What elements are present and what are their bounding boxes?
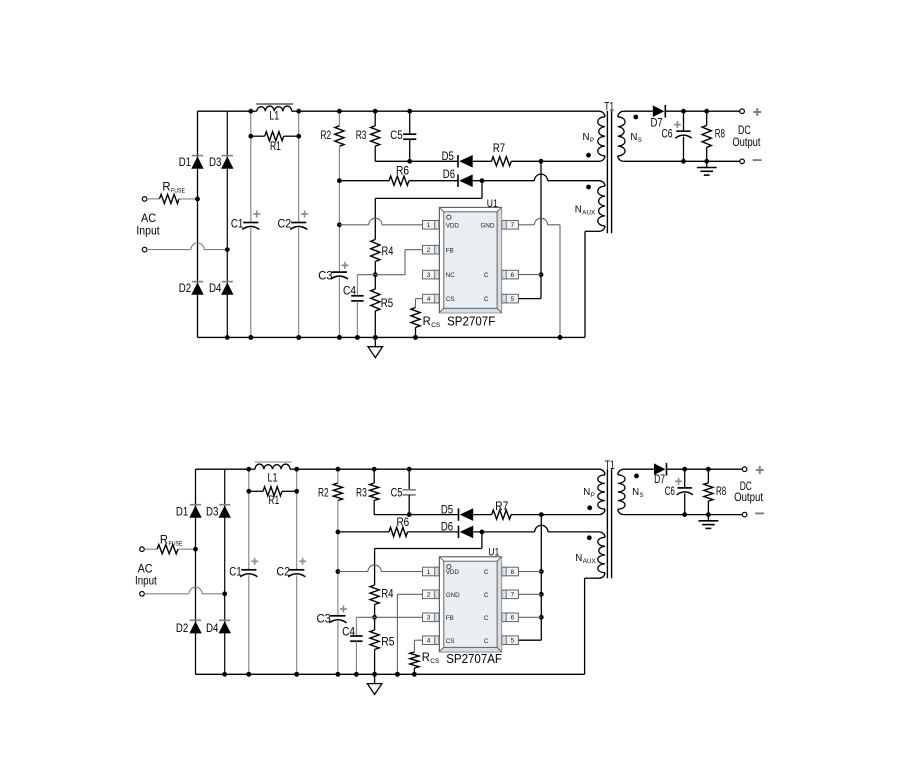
- svg-text:R4: R4: [381, 589, 394, 601]
- svg-text:R4: R4: [382, 246, 394, 258]
- svg-text:R2: R2: [318, 487, 329, 499]
- svg-text:N: N: [575, 205, 582, 216]
- svg-text:R7: R7: [495, 501, 508, 513]
- svg-text:C: C: [484, 638, 489, 645]
- svg-text:R: R: [423, 316, 431, 328]
- svg-text:L1: L1: [269, 111, 279, 123]
- svg-text:VDD: VDD: [446, 569, 460, 576]
- svg-text:GND: GND: [446, 592, 460, 599]
- svg-text:R2: R2: [321, 130, 332, 142]
- svg-text:S: S: [638, 138, 642, 144]
- svg-text:SP2707F: SP2707F: [447, 313, 495, 328]
- svg-text:VDD: VDD: [446, 222, 460, 229]
- svg-text:CS: CS: [446, 296, 455, 303]
- svg-text:Output: Output: [732, 137, 761, 149]
- svg-text:8: 8: [511, 569, 515, 576]
- svg-text:D6: D6: [441, 521, 453, 533]
- svg-text:R: R: [422, 652, 430, 664]
- svg-text:N: N: [583, 487, 590, 498]
- svg-text:2: 2: [427, 592, 431, 599]
- svg-text:CS: CS: [431, 322, 440, 329]
- svg-text:D2: D2: [179, 283, 191, 295]
- svg-text:SP2707AF: SP2707AF: [446, 651, 502, 666]
- svg-text:D6: D6: [443, 169, 455, 181]
- svg-text:D4: D4: [206, 623, 219, 635]
- svg-text:T1: T1: [604, 102, 614, 114]
- svg-text:P: P: [591, 493, 595, 499]
- svg-text:Input: Input: [135, 575, 157, 587]
- svg-text:FB: FB: [446, 615, 454, 622]
- svg-text:C: C: [484, 615, 489, 622]
- svg-text:D3: D3: [206, 507, 218, 519]
- svg-text:FUSE: FUSE: [169, 541, 183, 548]
- svg-text:7: 7: [511, 592, 515, 599]
- svg-text:NC: NC: [446, 272, 456, 279]
- svg-text:1: 1: [427, 569, 431, 576]
- svg-text:C5: C5: [390, 130, 402, 142]
- svg-text:R6: R6: [397, 517, 410, 529]
- svg-text:C: C: [484, 592, 489, 599]
- svg-text:C2: C2: [276, 566, 290, 578]
- svg-text:R7: R7: [493, 143, 505, 155]
- svg-text:D1: D1: [179, 157, 191, 169]
- svg-text:C3: C3: [318, 271, 332, 283]
- svg-text:R8: R8: [716, 486, 726, 498]
- svg-text:2: 2: [427, 247, 431, 254]
- svg-text:4: 4: [427, 296, 431, 303]
- svg-text:1: 1: [427, 222, 431, 229]
- svg-text:FUSE: FUSE: [171, 188, 185, 195]
- svg-text:D3: D3: [209, 157, 221, 169]
- svg-text:C2: C2: [278, 219, 292, 231]
- svg-text:3: 3: [427, 615, 431, 622]
- svg-text:6: 6: [511, 615, 515, 622]
- svg-text:CS: CS: [446, 638, 455, 645]
- svg-text:4: 4: [427, 638, 431, 645]
- svg-text:C6: C6: [665, 486, 675, 498]
- svg-text:D1: D1: [176, 507, 188, 519]
- svg-text:T1: T1: [605, 460, 615, 472]
- svg-text:R: R: [160, 535, 168, 547]
- svg-text:R1: R1: [268, 495, 279, 507]
- svg-text:R5: R5: [381, 637, 394, 649]
- svg-text:C: C: [484, 272, 489, 279]
- svg-text:P: P: [590, 138, 594, 144]
- svg-text:R8: R8: [715, 129, 725, 141]
- svg-text:C1: C1: [231, 219, 243, 231]
- svg-text:C: C: [484, 569, 489, 576]
- svg-text:D5: D5: [441, 504, 453, 516]
- svg-text:U1: U1: [487, 198, 498, 210]
- svg-text:R: R: [162, 182, 170, 194]
- svg-text:GND: GND: [481, 222, 495, 229]
- svg-text:5: 5: [511, 296, 515, 303]
- svg-text:5: 5: [511, 638, 515, 645]
- svg-text:AC: AC: [138, 564, 153, 576]
- svg-text:U1: U1: [488, 547, 499, 559]
- svg-text:FB: FB: [446, 247, 454, 254]
- svg-text:D5: D5: [442, 151, 454, 163]
- svg-text:R1: R1: [270, 141, 281, 153]
- svg-text:N: N: [630, 132, 637, 143]
- svg-text:DC: DC: [738, 125, 751, 137]
- svg-text:Input: Input: [136, 226, 160, 238]
- svg-text:N: N: [575, 553, 582, 564]
- svg-text:AUX: AUX: [583, 559, 596, 565]
- svg-text:AC: AC: [141, 213, 156, 225]
- svg-text:CS: CS: [430, 658, 439, 665]
- svg-text:D7: D7: [654, 474, 665, 486]
- svg-text:D2: D2: [176, 623, 188, 635]
- svg-text:R3: R3: [356, 130, 367, 142]
- svg-text:C3: C3: [317, 613, 331, 625]
- svg-text:N: N: [583, 132, 590, 143]
- svg-text:D4: D4: [209, 283, 222, 295]
- svg-text:S: S: [640, 493, 644, 499]
- svg-text:C5: C5: [391, 488, 403, 500]
- svg-text:L1: L1: [268, 473, 278, 485]
- svg-text:3: 3: [427, 272, 431, 279]
- svg-text:C: C: [484, 296, 489, 303]
- svg-text:C1: C1: [229, 566, 241, 578]
- svg-text:Output: Output: [734, 492, 764, 504]
- svg-text:R6: R6: [396, 165, 409, 177]
- svg-text:6: 6: [511, 272, 515, 279]
- svg-text:N: N: [632, 487, 639, 498]
- svg-text:7: 7: [511, 222, 515, 229]
- svg-text:C6: C6: [662, 129, 673, 141]
- svg-text:AUX: AUX: [582, 210, 595, 216]
- svg-text:R3: R3: [356, 487, 367, 499]
- svg-text:R5: R5: [381, 298, 393, 310]
- svg-text:C4: C4: [343, 286, 357, 298]
- svg-text:C4: C4: [342, 627, 356, 639]
